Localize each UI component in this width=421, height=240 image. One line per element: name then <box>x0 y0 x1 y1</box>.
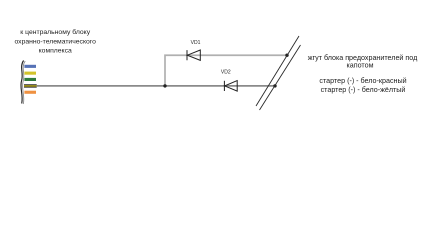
junction node <box>163 84 166 87</box>
label VD2 <box>221 69 231 75</box>
wire: main black/yellow wire to harness <box>37 85 275 87</box>
svg-text:комплекса: комплекса <box>39 47 72 54</box>
wire end: black-yellow (starter wire) <box>24 84 37 87</box>
node: top wire to harness <box>285 54 288 57</box>
svg-text:стартер (-) - бело-жёлтый: стартер (-) - бело-жёлтый <box>321 86 406 94</box>
svg-text:капотом: капотом <box>346 62 373 70</box>
wire end: orange <box>24 91 36 94</box>
diode VD2 <box>224 81 237 92</box>
svg-text:VD2: VD2 <box>221 69 231 75</box>
harness crossing line (right) <box>260 45 301 110</box>
wire end: blue <box>24 65 36 68</box>
label: к центральному блоку охранно-телематического комплекса <box>14 28 96 54</box>
wire end: yellow <box>24 72 36 75</box>
node: bottom wire to harness <box>273 84 276 87</box>
diode VD1 <box>187 50 200 60</box>
wire: branch up from junction <box>165 55 287 86</box>
harness crossing line (left) <box>256 36 299 106</box>
svg-text:охранно-телематического: охранно-телематического <box>14 38 96 45</box>
label VD1 <box>191 40 201 46</box>
svg-text:VD1: VD1 <box>191 40 201 46</box>
svg-text:к центральному блоку: к центральному блоку <box>20 28 90 36</box>
harness break (wavy boundary line) <box>21 61 24 104</box>
svg-text:стартер (-) - бело-красный: стартер (-) - бело-красный <box>319 77 406 85</box>
wire end: green <box>24 78 36 81</box>
label: жгут блока предохранителей под капотом <box>308 54 418 94</box>
